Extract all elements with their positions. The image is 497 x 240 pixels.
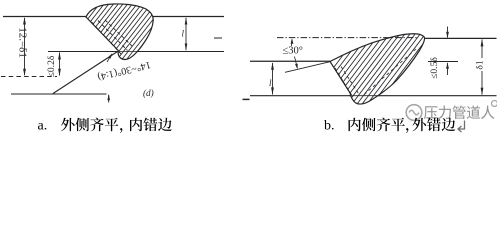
weld bead (right diagram), hatched: [330, 34, 425, 104]
left diagram: plate top surface line (left of weld): [3, 16, 87, 18]
stray dash segment near bottom between diagrams: [243, 98, 250, 100]
left diagram: inner-surface extension line y=51.5: [48, 51, 224, 53]
svg-text:l: l: [269, 78, 272, 88]
svg-text:≤30°: ≤30°: [283, 46, 303, 57]
svg-text:14°~30°(1:4): 14°~30°(1:4): [96, 59, 151, 82]
weld bead A internal dashed groove lines: [92, 22, 122, 54]
right diagram: outer taper slant thin line: [285, 62, 331, 73]
stray dash segment: [214, 37, 222, 39]
right diagram: step extension line: [428, 61, 458, 63]
dimension: outer misalignment step (arrows outside): [447, 27, 449, 38]
leader arrow to taper line: [107, 55, 112, 63]
weld bead B internal dashed groove line: [362, 49, 416, 97]
caption b chinese: 内侧齐平,外错边: [349, 118, 361, 131]
small circle mark at right edge: [492, 101, 497, 107]
dimension l (right plate thickness side), left diagram: [185, 18, 187, 50]
left diagram: taper transition slant line: [53, 52, 118, 94]
extension line visible through weld bead A: [119, 51, 149, 53]
dimension l, right diagram left side: [272, 63, 274, 95]
svg-text:≤0.2δ: ≤0.2δ: [46, 55, 57, 77]
weld bead (left diagram), hatched: [86, 4, 153, 60]
pilcrow return mark: [458, 121, 465, 133]
bottom line visible through weld bead B tip: [349, 95, 380, 97]
svg-text:(d): (d): [143, 88, 154, 98]
weld bead B internal dashed groove lines (left): [335, 68, 353, 97]
angle leader arrow down to slant: [295, 57, 298, 69]
svg-text:b.: b.: [324, 119, 335, 134]
svg-text:≤0.5δ: ≤0.5δ: [429, 57, 440, 79]
svg-text:a.: a.: [38, 119, 48, 134]
weld bead A hatching: [40, 0, 212, 62]
right diagram: common inner surface (flush) bottom line: [250, 95, 497, 97]
dimension: overall thickness, left edge: [24, 18, 26, 75]
small up arrow at bottom line end: [108, 95, 110, 103]
left diagram: plate top surface line (right of weld): [148, 16, 224, 18]
right diagram: thick plate top surface: [424, 37, 497, 39]
left diagram: dashed line (original inner surface): [1, 76, 57, 78]
caption a chinese: 外侧齐平, 内错边: [61, 118, 75, 132]
right diagram: thin plate top surface: [250, 60, 331, 62]
left diagram: thick-plate bottom line: [11, 93, 107, 95]
dimension: thick plate thickness delta1, right edge: [481, 40, 483, 59]
svg-text:12.=δ1: 12.=δ1: [16, 27, 28, 58]
svg-text:δ1: δ1: [475, 60, 486, 70]
angle leader arrow up to dash-dot line: [291, 40, 293, 47]
right diagram: dash-dot reference line: [277, 37, 417, 39]
svg-text:l: l: [182, 29, 185, 39]
watermark text 压力管道人: [424, 106, 438, 119]
weld bead B hatching: [300, 30, 497, 112]
dimension: inner misalignment, arrows between y51.5 and y76.5: [59, 53, 61, 76]
watermark logo circle: [406, 105, 422, 121]
